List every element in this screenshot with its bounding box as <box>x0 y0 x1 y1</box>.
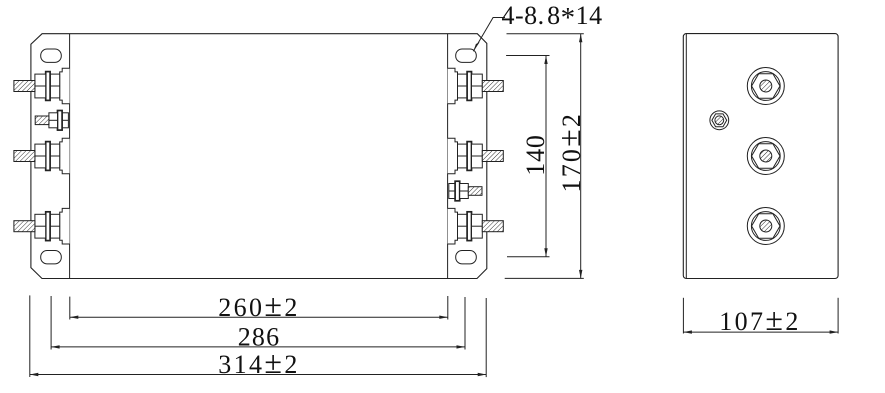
terminal L3: insulator base, nuts, lock washer, threaded stud <box>14 208 70 244</box>
terminal L2: insulator base, nuts, lock washer, threaded stud <box>14 138 70 174</box>
side view outline <box>683 34 838 279</box>
side-view terminal T1: washer circle, hex nut, stud end <box>747 68 784 105</box>
terminal R1: insulator base, nuts, lock washer, threaded stud <box>448 68 504 104</box>
mounting slot bottom-right 8.8x14 <box>456 251 477 264</box>
svg-text:314±2: 314±2 <box>218 344 300 380</box>
side-view earth stud: washer circle, hex nut, stud end <box>710 111 729 130</box>
terminal L1: insulator base, nuts, lock washer, threaded stud <box>14 68 70 104</box>
mounting slot bottom-left 8.8x14 <box>41 251 62 264</box>
leader line for mounting-hole callout <box>473 18 505 52</box>
dimension 170±2 extension lines <box>507 33 584 35</box>
extension lines for bottom dimensions <box>69 297 71 320</box>
dimension 140 (hole spacing) extension lines <box>506 55 549 57</box>
side view flange plate edge <box>685 34 687 278</box>
side-view terminal T3: washer circle, hex nut, stud end <box>747 208 784 245</box>
svg-text:140: 140 <box>521 134 550 175</box>
dimension 107±2 line <box>683 331 838 333</box>
svg-text:4-8.8*14: 4-8.8*14 <box>502 1 603 34</box>
dimension 260±2 line <box>70 316 448 318</box>
side-view terminal T2: washer circle, hex nut, stud end <box>747 138 784 175</box>
body right edge (flange joint) <box>447 34 449 279</box>
front view case outline with mounting flanges <box>31 34 487 279</box>
dimension 107±2 extension lines <box>682 298 684 334</box>
mounting slot top-right 8.8x14 <box>456 49 477 62</box>
dimension 140 line <box>545 56 547 257</box>
terminal R2: insulator base, nuts, lock washer, threaded stud <box>448 138 504 174</box>
terminal R3: insulator base, nuts, lock washer, threaded stud <box>448 208 504 244</box>
mounting slot top-left 8.8x14 <box>41 49 62 62</box>
terminal E2 (small earth stud): nuts, lock washer, threaded stud <box>449 181 482 201</box>
svg-text:107±2: 107±2 <box>719 301 801 337</box>
dimension 314±2 line <box>30 374 486 376</box>
body left edge (flange joint) <box>69 34 71 279</box>
dimension 286 line <box>51 346 465 348</box>
dimension 170±2 line <box>580 34 582 279</box>
terminal E1 (small earth stud): nuts, lock washer, threaded stud <box>35 111 68 131</box>
svg-text:260±2: 260±2 <box>218 287 300 323</box>
svg-text:170±2: 170±2 <box>551 112 587 193</box>
